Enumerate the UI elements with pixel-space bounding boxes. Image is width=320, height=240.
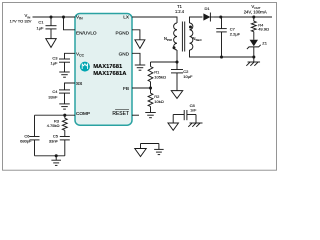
wire VOUT rail bbox=[214, 16, 272, 18]
capacitor C5 bbox=[49, 134, 70, 156]
pin label FB bbox=[123, 86, 129, 91]
svg-text:R1: R1 bbox=[154, 69, 160, 74]
transformer T1 core bbox=[182, 22, 184, 52]
capacitor C1 bbox=[37, 17, 57, 39]
wire LX to T1 bbox=[132, 17, 177, 23]
svg-text:49.9Ω: 49.9Ω bbox=[258, 27, 269, 32]
pin label EN/UVLO bbox=[76, 30, 97, 35]
pin label COMP bbox=[76, 111, 90, 116]
ground tie earth bbox=[154, 144, 164, 155]
junction VIN-C1 bbox=[49, 15, 52, 18]
transformer T1 primary winding bbox=[164, 23, 177, 50]
ground PGND bbox=[135, 40, 145, 49]
capacitor C2 bbox=[171, 62, 193, 91]
svg-text:LX: LX bbox=[123, 15, 130, 20]
ground COMP network bbox=[51, 156, 61, 166]
ground secondary bbox=[246, 57, 260, 66]
svg-text:1nF: 1nF bbox=[190, 109, 197, 113]
pin label SS bbox=[76, 81, 82, 86]
capacitor C3 bbox=[51, 56, 70, 73]
polarity dot primary bbox=[173, 46, 176, 49]
junction FB bbox=[149, 86, 152, 89]
capacitor C8 bbox=[184, 103, 197, 120]
capacitor C4 bbox=[48, 89, 70, 104]
pin label VCC bbox=[76, 51, 85, 57]
svg-text:PGND: PGND bbox=[115, 30, 129, 35]
ground C3 bbox=[59, 72, 70, 77]
svg-text:105kΩ: 105kΩ bbox=[154, 75, 166, 80]
ground C4 bbox=[59, 104, 70, 109]
part number text bbox=[93, 64, 127, 77]
svg-text:EN/UVLO: EN/UVLO bbox=[76, 30, 97, 35]
junction Z1 bottom bbox=[252, 55, 255, 58]
svg-text:24V, 100mA: 24V, 100mA bbox=[244, 10, 267, 15]
junction VOUT-C7 bbox=[219, 15, 222, 18]
polarity dot secondary bbox=[189, 26, 192, 29]
svg-text:RESET: RESET bbox=[112, 111, 129, 117]
junction C7 bottom bbox=[220, 55, 223, 58]
wire SS branch bbox=[65, 83, 76, 90]
svg-text:GND: GND bbox=[119, 51, 130, 56]
ground C2 bbox=[171, 91, 183, 99]
pin label VIN bbox=[76, 15, 83, 21]
ground C1 bbox=[46, 39, 57, 48]
ground tie triangle bbox=[135, 144, 159, 157]
ground R2 bbox=[145, 113, 156, 118]
capacitor C7 bbox=[216, 17, 240, 57]
svg-text:1μF: 1μF bbox=[51, 61, 59, 66]
node line R1-C2 bbox=[151, 61, 178, 63]
svg-text:Z1: Z1 bbox=[262, 41, 267, 46]
wire RESET stub bbox=[132, 114, 139, 116]
svg-text:2.2μF: 2.2μF bbox=[230, 31, 241, 36]
resistor R3 bbox=[47, 115, 67, 136]
svg-text:COMP: COMP bbox=[76, 111, 90, 116]
resistor R1 bbox=[148, 62, 166, 88]
junction COMP-R3 bbox=[63, 114, 66, 117]
svg-text:10μF: 10μF bbox=[183, 74, 193, 79]
svg-text:SS: SS bbox=[76, 81, 82, 86]
wire comp bottom rail bbox=[35, 155, 65, 157]
svg-text:33nF: 33nF bbox=[48, 94, 58, 99]
pin label RESET bbox=[112, 110, 129, 118]
junction VOUT-R4 bbox=[252, 15, 255, 18]
ground C8 left bbox=[168, 115, 184, 131]
wire PGND bbox=[132, 30, 140, 40]
svg-text:T1: T1 bbox=[177, 4, 183, 9]
capacitor C6 bbox=[20, 115, 39, 156]
IC U1 MAX17681 body bbox=[75, 14, 132, 126]
wire T1 secondary bottom bbox=[190, 50, 254, 57]
junction VIN-EN bbox=[62, 15, 65, 18]
svg-text:MAX17681A: MAX17681A bbox=[93, 71, 127, 77]
zener Z1 bbox=[247, 32, 268, 57]
svg-text:10kΩ: 10kΩ bbox=[154, 99, 163, 104]
svg-text:1:2.4: 1:2.4 bbox=[175, 9, 185, 14]
svg-text:MAX17681: MAX17681 bbox=[93, 64, 123, 70]
Maxim logo bbox=[80, 62, 90, 72]
resistor R2 bbox=[148, 88, 164, 113]
svg-text:C1: C1 bbox=[38, 20, 44, 25]
transformer T1 secondary winding bbox=[190, 23, 203, 50]
wire T1 secondary top bbox=[190, 17, 203, 23]
svg-text:680pF: 680pF bbox=[20, 139, 32, 144]
transformer T1 label bbox=[175, 4, 185, 14]
svg-text:C8: C8 bbox=[190, 103, 196, 108]
svg-text:33nF: 33nF bbox=[49, 139, 59, 144]
border frame bbox=[3, 3, 277, 171]
wire VIN rail bbox=[33, 16, 76, 18]
svg-text:1μF: 1μF bbox=[37, 25, 45, 30]
svg-text:17V TO 32V: 17V TO 32V bbox=[10, 19, 32, 24]
node VOUT label bbox=[244, 4, 267, 15]
wire EN branch bbox=[64, 17, 76, 30]
junction T1-C2 bbox=[175, 60, 178, 63]
wire GND bbox=[132, 53, 140, 65]
wire T1 primary bottom bbox=[176, 50, 178, 62]
svg-text:D1: D1 bbox=[204, 6, 210, 11]
diode D1 bbox=[203, 6, 214, 22]
ground C8 right bbox=[188, 115, 202, 127]
pin label LX bbox=[123, 15, 130, 20]
junction comp gnd bbox=[55, 154, 58, 157]
pin label GND bbox=[119, 51, 130, 56]
svg-text:R2: R2 bbox=[154, 94, 160, 99]
pin label PGND bbox=[115, 30, 129, 35]
wire FB bbox=[132, 87, 151, 89]
resistor R4 bbox=[251, 17, 269, 32]
svg-text:FB: FB bbox=[123, 86, 129, 91]
wire VCC branch bbox=[65, 53, 76, 59]
wire COMP bbox=[35, 114, 76, 116]
svg-text:C2: C2 bbox=[183, 69, 189, 74]
ground GND bbox=[135, 65, 146, 70]
node VIN label bbox=[10, 13, 32, 23]
svg-text:4.75kΩ: 4.75kΩ bbox=[47, 123, 60, 128]
